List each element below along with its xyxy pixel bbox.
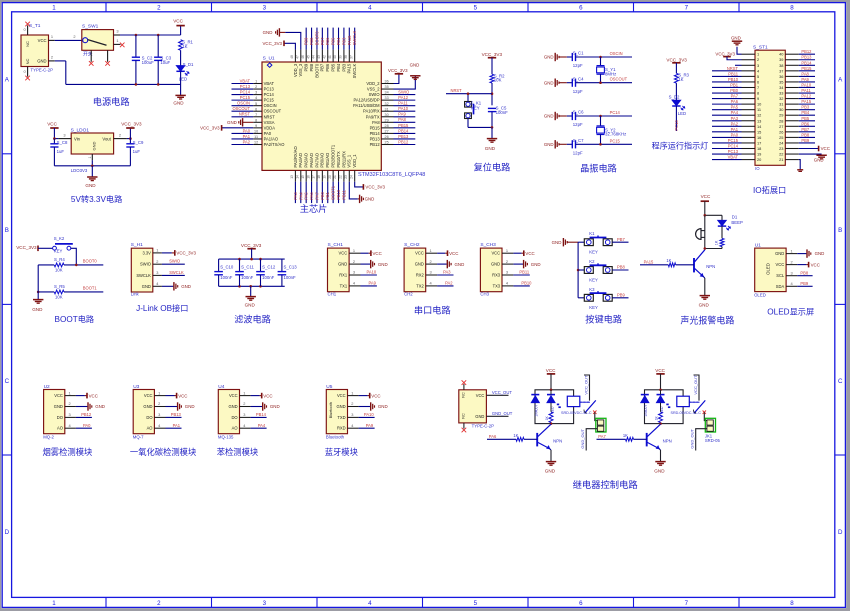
svg-text:7: 7: [255, 113, 257, 117]
wire R1 to D1: [180, 50, 182, 65]
svg-text:GND_OUT: GND_OUT: [689, 428, 694, 448]
svg-text:GND: GND: [228, 404, 237, 409]
svg-text:3.3V: 3.3V: [142, 250, 151, 255]
svg-text:PB11: PB11: [519, 270, 529, 275]
svg-text:PC13: PC13: [240, 84, 251, 89]
svg-text:26: 26: [385, 135, 389, 139]
ST1 pin 27: [785, 125, 799, 127]
svg-text:VCC_3V3: VCC_3V3: [241, 243, 262, 248]
svg-text:PA1: PA1: [173, 423, 181, 428]
svg-text:3: 3: [791, 270, 793, 275]
wire R2 to node: [491, 83, 493, 105]
svg-text:VCC: VCC: [89, 393, 98, 398]
U1 bottom pin 15 PA5/AO: [305, 170, 307, 181]
svg-text:串口电路: 串口电路: [414, 305, 451, 316]
svg-text:PA15: PA15: [347, 63, 352, 73]
svg-text:GND_OUT: GND_OUT: [492, 411, 513, 416]
svg-text:PB12: PB12: [81, 412, 92, 417]
svg-text:PB0/AO: PB0/AO: [320, 153, 325, 168]
svg-text:BOOT0: BOOT0: [314, 31, 319, 46]
svg-text:PB0: PB0: [320, 191, 325, 199]
U1 top pin 46 PB9: [305, 50, 307, 62]
power ground at VSS_2: [394, 76, 416, 89]
svg-text:12: 12: [254, 141, 258, 145]
svg-text:100uF: 100uF: [142, 60, 155, 65]
svg-text:3: 3: [69, 412, 71, 417]
U1 bottom pin 20 PB2/BOOT1: [332, 170, 334, 181]
ST1 pin 15: [742, 131, 756, 133]
svg-text:PA2/TX/AO: PA2/TX/AO: [264, 142, 285, 147]
wire R4 to BOOT0: [64, 264, 103, 266]
svg-text:PA8: PA8: [801, 71, 809, 76]
svg-text:PB13: PB13: [801, 55, 812, 60]
svg-text:PB6: PB6: [325, 37, 330, 45]
svg-text:GND: GND: [544, 114, 554, 119]
svg-text:VCC: VCC: [415, 251, 424, 256]
svg-text:RX2: RX2: [416, 273, 425, 278]
svg-text:PA11: PA11: [398, 101, 408, 106]
capacitor S_C6 12pF: [567, 115, 572, 117]
module U3 (MQ-7) body: [133, 390, 154, 434]
resistor 1K (led series): [720, 238, 724, 246]
wire T1.VCC to SW1: [55, 39, 82, 41]
svg-text:1K: 1K: [655, 416, 659, 421]
wire D2 to PC13: [675, 106, 677, 131]
U1 left pin 7 NRST: [253, 116, 262, 118]
capacitor S_C5 100nF: [488, 107, 496, 109]
svg-text:PB5: PB5: [801, 116, 809, 121]
svg-text:VCC: VCC: [449, 251, 458, 256]
ST1 pin 21: [785, 159, 799, 161]
U1 top pin 40 PB4: [338, 50, 340, 62]
svg-text:43: 43: [317, 55, 321, 59]
wire buzzer branch: [704, 215, 706, 248]
power ground (header pin 21): [799, 160, 800, 170]
svg-text:1: 1: [757, 52, 759, 57]
svg-text:OSCOUT: OSCOUT: [610, 77, 628, 82]
svg-text:PB1: PB1: [325, 191, 330, 199]
svg-text:DO: DO: [57, 415, 63, 420]
svg-text:PB9: PB9: [801, 138, 809, 143]
flyback diode 1N4007: [531, 394, 539, 396]
svg-text:VCC_3V3: VCC_3V3: [16, 245, 37, 250]
svg-text:6: 6: [757, 79, 759, 84]
svg-text:GND: GND: [54, 404, 63, 409]
TYPE-C pin top (n.c.): [463, 384, 465, 390]
svg-text:PA12: PA12: [801, 94, 811, 99]
wire PA10: [361, 274, 377, 276]
svg-text:BEEP: BEEP: [731, 220, 743, 225]
svg-text:SCL: SCL: [776, 273, 785, 278]
svg-text:1: 1: [353, 248, 355, 253]
svg-text:1: 1: [156, 248, 158, 253]
resistor S_R4 10K: [54, 263, 64, 267]
svg-text:3: 3: [63, 132, 65, 137]
svg-text:100nF: 100nF: [220, 275, 233, 280]
power port VCC (U5.1): [359, 395, 368, 397]
svg-text:OSCIN: OSCIN: [237, 101, 250, 106]
svg-text:PB8: PB8: [309, 37, 314, 45]
svg-text:PA12: PA12: [398, 95, 408, 100]
ST1 pin 20: [742, 159, 756, 161]
svg-text:电源电路: 电源电路: [93, 96, 130, 107]
svg-text:13: 13: [290, 175, 294, 179]
svg-text:PC15: PC15: [240, 95, 251, 100]
svg-text:23: 23: [779, 146, 783, 151]
TYPE-C pin bottom (n.c.): [463, 423, 465, 429]
ST1 pin 3: [742, 64, 756, 66]
svg-text:PA0: PA0: [264, 131, 272, 136]
svg-text:PA7: PA7: [314, 192, 319, 200]
U1 left pin 2 PC13: [253, 88, 262, 90]
svg-text:S_SW1: S_SW1: [82, 24, 99, 30]
svg-text:42: 42: [322, 55, 326, 59]
svg-text:PA10: PA10: [367, 270, 377, 275]
svg-text:9: 9: [255, 124, 257, 128]
svg-text:VSS_3: VSS_3: [298, 63, 303, 76]
wire node to NRST: [446, 93, 492, 95]
svg-text:28: 28: [385, 124, 389, 128]
svg-text:Vin: Vin: [74, 136, 81, 141]
pin-1 diamond marker: [267, 63, 272, 67]
ST1 pin 18: [742, 147, 756, 149]
power port VCC_3V3 at VDDA: [222, 127, 254, 129]
ST1 pin 7: [742, 86, 756, 88]
U1 bottom pin 17 PA7/AO: [316, 170, 318, 181]
svg-text:VCC: VCC: [178, 393, 187, 398]
svg-text:NRST: NRST: [239, 112, 251, 117]
wire VCC_OUT riser: [584, 375, 590, 401]
svg-text:2: 2: [73, 34, 75, 39]
svg-text:PA10: PA10: [398, 106, 408, 111]
U1 left pin 12 PA2/TX/AO: [253, 143, 262, 145]
ST1 pin 4: [742, 70, 756, 72]
svg-text:PA3: PA3: [731, 116, 739, 121]
svg-text:1: 1: [52, 600, 56, 607]
wire button/cap to ground: [468, 126, 492, 128]
svg-text:10uF: 10uF: [160, 60, 170, 65]
SW1 pin 3 output: [114, 34, 121, 36]
wire to OSCIN: [601, 56, 633, 58]
svg-text:PA2: PA2: [445, 281, 453, 286]
svg-text:PA11: PA11: [801, 88, 811, 93]
svg-text:PA1/AO: PA1/AO: [264, 136, 279, 141]
svg-text:S_CH1: S_CH1: [328, 242, 344, 248]
svg-text:U4: U4: [218, 384, 224, 390]
svg-text:NC: NC: [25, 41, 30, 47]
svg-text:1: 1: [791, 248, 793, 253]
pin header S_ST1 body: [755, 50, 785, 165]
svg-text:U1: U1: [755, 242, 761, 248]
resistor S_R2 10K: [490, 74, 494, 83]
relay coil loop: [535, 390, 574, 424]
base resistor 1K: [640, 264, 668, 266]
svg-text:VDD_1: VDD_1: [352, 154, 357, 168]
svg-text:VCC: VCC: [173, 19, 183, 24]
power port VCC_3V3 at VDD_1: [355, 182, 364, 187]
svg-text:OSCOUT: OSCOUT: [232, 106, 250, 111]
svg-text:PA11/USB/DM: PA11/USB/DM: [353, 103, 380, 108]
power port VCC (S_CH1.1): [361, 252, 369, 254]
svg-text:1uF: 1uF: [133, 149, 141, 154]
svg-text:IO拓展口: IO拓展口: [753, 185, 786, 195]
wire PB13: [166, 416, 182, 418]
svg-text:39: 39: [339, 55, 343, 59]
svg-text:S_D2: S_D2: [669, 95, 680, 100]
svg-text:U3: U3: [133, 384, 139, 390]
wire filter top rail: [219, 258, 285, 260]
svg-text:4: 4: [368, 600, 372, 607]
svg-text:NRST: NRST: [727, 66, 739, 71]
U1 left pin 1 VBAT: [253, 83, 262, 85]
svg-text:BOOT电路: BOOT电路: [55, 314, 95, 324]
svg-text:K2: K2: [589, 259, 595, 264]
svg-text:B: B: [838, 227, 842, 234]
svg-text:8: 8: [790, 4, 794, 11]
svg-text:4: 4: [368, 4, 372, 11]
svg-text:VCC_OUT: VCC_OUT: [693, 375, 698, 395]
power ground at VSSA: [243, 121, 254, 123]
svg-text:PA4: PA4: [731, 110, 739, 115]
power port VCC (S_CH3.1): [513, 252, 521, 254]
svg-text:VCC_OUT: VCC_OUT: [492, 390, 512, 395]
ST1 pin 30: [785, 109, 799, 111]
svg-text:6: 6: [255, 107, 257, 111]
svg-text:PB3: PB3: [341, 37, 346, 45]
svg-text:S_C10: S_C10: [220, 265, 234, 270]
svg-text:RX3: RX3: [492, 273, 501, 278]
U1 top pin 42 PB6: [327, 50, 329, 62]
svg-text:1K: 1K: [545, 416, 549, 421]
svg-text:Bluetooth: Bluetooth: [329, 402, 333, 418]
resistor S_R5 10K: [54, 290, 64, 294]
svg-text:2: 2: [255, 85, 257, 89]
svg-text:VCC: VCC: [47, 122, 57, 127]
svg-text:按键电路: 按键电路: [585, 314, 622, 325]
svg-text:TXD: TXD: [337, 415, 345, 420]
svg-text:38: 38: [779, 63, 783, 68]
svg-text:BOOT1: BOOT1: [331, 185, 336, 200]
svg-text:39: 39: [779, 57, 783, 62]
svg-text:PB10: PB10: [728, 77, 739, 82]
svg-text:2: 2: [158, 401, 160, 406]
svg-text:8: 8: [757, 91, 759, 96]
svg-text:GND: GND: [85, 183, 96, 188]
ST1 pin 11: [742, 109, 756, 111]
ST1 pin 23: [785, 147, 799, 149]
ST1 pin 16: [742, 136, 756, 138]
svg-text:K1: K1: [589, 231, 595, 236]
svg-text:3: 3: [263, 4, 267, 11]
svg-text:PA3: PA3: [443, 270, 451, 275]
power ground (U2.2): [76, 406, 88, 408]
ST1 pin 17: [742, 142, 756, 144]
capacitor S_C9 1uF: [129, 139, 131, 144]
U1 top pin 41 PB5: [332, 50, 334, 62]
relay linkage dash: [689, 401, 699, 403]
wire SWIO: [162, 263, 185, 265]
wire PB7: [612, 241, 628, 243]
wire gnd return rail: [55, 60, 66, 62]
svg-text:TX3: TX3: [493, 283, 501, 288]
svg-text:PB15: PB15: [370, 125, 381, 130]
wire SWCLK: [162, 274, 185, 276]
svg-text:7: 7: [685, 4, 689, 11]
svg-text:GND: GND: [491, 262, 500, 267]
svg-text:S_U1: S_U1: [263, 55, 275, 61]
capacitor S_C11 100nF: [239, 259, 241, 271]
svg-text:31: 31: [779, 102, 783, 107]
power ground: [91, 166, 93, 177]
svg-text:CH3: CH3: [480, 292, 489, 297]
svg-text:2: 2: [430, 259, 432, 264]
svg-text:GND: GND: [654, 468, 665, 473]
svg-text:23: 23: [344, 175, 348, 179]
capacitor S_C8 1uF: [53, 139, 55, 144]
svg-text:NRST: NRST: [451, 88, 463, 93]
wire PB9: [612, 297, 628, 299]
svg-text:滤波电路: 滤波电路: [234, 314, 271, 325]
svg-text:PC15: PC15: [264, 98, 275, 103]
svg-text:34: 34: [385, 91, 389, 95]
base resistor 1K: [597, 438, 626, 440]
U1 left pin 5 OSCIN: [253, 105, 262, 107]
svg-text:S_C1: S_C1: [573, 51, 584, 56]
svg-text:C: C: [5, 378, 10, 385]
LED D1 BEEP: [718, 220, 726, 225]
svg-text:PB8: PB8: [309, 63, 314, 71]
svg-text:GND: GND: [814, 158, 824, 163]
ST1 pin 2: [742, 59, 756, 61]
svg-text:VCC: VCC: [337, 393, 346, 398]
ST1 pin 32: [785, 98, 799, 100]
svg-text:S_D1: S_D1: [183, 62, 194, 67]
svg-text:PB9: PB9: [800, 281, 808, 286]
svg-text:3: 3: [353, 270, 355, 275]
svg-text:PB7: PB7: [320, 37, 325, 45]
svg-text:PA9: PA9: [398, 112, 406, 117]
svg-text:S_H1: S_H1: [131, 242, 143, 248]
relay switch contact: [694, 400, 705, 413]
svg-text:BOOT0: BOOT0: [83, 258, 98, 263]
connector S_CH3 body: [480, 248, 502, 292]
U1 bottom pin 13 PA3/RX/AO: [294, 170, 296, 181]
svg-text:PB1/AO: PB1/AO: [325, 153, 330, 168]
svg-text:GND: GND: [173, 101, 184, 106]
svg-text:27: 27: [779, 124, 783, 129]
relay switch contact: [585, 400, 596, 413]
svg-text:30: 30: [385, 113, 389, 117]
wire SDA: [797, 285, 812, 287]
push button S_K1 KEY: [467, 94, 469, 102]
svg-text:PB5: PB5: [331, 37, 336, 45]
svg-text:VCC: VCC: [373, 251, 382, 256]
svg-text:VCC_3V3: VCC_3V3: [262, 41, 282, 46]
svg-text:9: 9: [757, 96, 759, 101]
svg-text:SRD-05: SRD-05: [705, 438, 721, 443]
svg-text:PA10: PA10: [364, 412, 374, 417]
svg-text:PC13: PC13: [728, 149, 739, 154]
svg-text:TYPE-C-2P: TYPE-C-2P: [472, 423, 495, 428]
U1 bottom pin 21 PB10/TX: [338, 170, 340, 181]
svg-text:GND: GND: [338, 262, 347, 267]
svg-text:PA3: PA3: [293, 192, 298, 200]
svg-text:STM32F103C8T6_LQFP48: STM32F103C8T6_LQFP48: [358, 172, 425, 178]
svg-text:3: 3: [158, 412, 160, 417]
svg-text:PC13: PC13: [264, 87, 275, 92]
svg-text:PB8: PB8: [617, 265, 625, 270]
connector T1 (TYPE-C-2P): [21, 35, 49, 67]
svg-text:VBAT: VBAT: [264, 81, 275, 86]
svg-text:VCC: VCC: [54, 393, 63, 398]
svg-text:LED: LED: [678, 111, 686, 116]
capacitor S_C10 100nF: [218, 259, 220, 271]
svg-text:VDD_2: VDD_2: [366, 81, 380, 86]
U1 right pin 34 SWIO: [381, 94, 393, 96]
push button K3 KEY: [578, 297, 584, 299]
wire emitter to ground: [703, 276, 705, 278]
svg-text:VCC_3V3: VCC_3V3: [365, 185, 385, 190]
svg-text:PA10/RX: PA10/RX: [363, 109, 380, 114]
svg-text:VSSA: VSSA: [264, 120, 275, 125]
svg-text:KEY: KEY: [471, 106, 480, 111]
connector S_CH2 body: [404, 248, 426, 292]
ST1 pin 5: [742, 75, 756, 77]
svg-text:VCC: VCC: [144, 393, 153, 398]
svg-text:程序运行指示灯: 程序运行指示灯: [652, 141, 709, 151]
U1 left pin 9 VDDA: [253, 127, 262, 129]
wire PA10: [359, 416, 375, 418]
svg-text:PC14: PC14: [610, 110, 621, 115]
LED D1: [176, 66, 184, 71]
svg-text:VCC: VCC: [263, 393, 272, 398]
svg-text:MQ-2: MQ-2: [43, 434, 54, 439]
power ground: [33, 299, 43, 301]
svg-text:GND: GND: [32, 307, 43, 312]
U1 bottom pin 23 VSS_1: [348, 170, 350, 181]
svg-text:PA5: PA5: [731, 105, 739, 110]
svg-text:3: 3: [263, 600, 267, 607]
svg-text:1K: 1K: [678, 77, 683, 82]
svg-text:PB12: PB12: [398, 139, 409, 144]
svg-text:GND: GND: [544, 55, 554, 60]
power ground (H1.4): [162, 285, 173, 287]
power ground (relay driver): [655, 461, 665, 463]
svg-text:LDO3V3: LDO3V3: [71, 168, 88, 173]
svg-text:PB6: PB6: [325, 63, 330, 71]
svg-text:35: 35: [779, 79, 783, 84]
svg-text:D: D: [5, 529, 10, 536]
svg-text:5: 5: [474, 600, 478, 607]
wire K2 to BOOT0 row: [71, 248, 77, 265]
relay coil: [567, 396, 580, 406]
ST1 pin 8: [742, 92, 756, 94]
svg-text:100nF: 100nF: [241, 275, 254, 280]
svg-text:5: 5: [757, 74, 759, 79]
svg-text:25: 25: [385, 141, 389, 145]
svg-text:33: 33: [779, 91, 783, 96]
wire to PC15: [601, 143, 633, 145]
svg-text:VBAT: VBAT: [728, 155, 739, 160]
svg-text:PA7: PA7: [731, 94, 739, 99]
relay contact linkage (dashed): [689, 401, 699, 403]
push button K2 KEY: [578, 269, 584, 271]
connector TYPE-C-2P (relay supply): [459, 390, 487, 423]
svg-text:S_LDO1: S_LDO1: [71, 127, 90, 133]
svg-text:VCC: VCC: [776, 262, 785, 267]
svg-text:1K: 1K: [513, 433, 518, 438]
svg-text:D1: D1: [732, 215, 738, 220]
